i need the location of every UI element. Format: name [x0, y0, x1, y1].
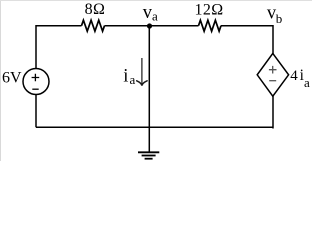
wire bottom [36, 126, 273, 128]
svg-text:i: i [123, 66, 128, 86]
resistor 12Ω zigzag [199, 20, 222, 31]
current arrow i_a head [137, 81, 147, 86]
ground stem [148, 127, 150, 152]
svg-text:a: a [152, 8, 158, 23]
wire top-left segment [36, 25, 82, 27]
wire right vertical upper [272, 25, 274, 54]
svg-text:b: b [276, 11, 283, 26]
svg-text:8Ω: 8Ω [85, 1, 106, 18]
svg-text:6V: 6V [2, 70, 22, 87]
node v_a junction dot [147, 23, 152, 28]
ground bar 3 [145, 158, 153, 160]
voltage source plus sign [32, 74, 40, 82]
wire left vertical lower [35, 94, 37, 127]
voltage source 6V circle [23, 69, 49, 95]
resistor 8Ω zigzag [82, 20, 105, 31]
wire top-right segment [221, 25, 273, 27]
dependent source diamond [257, 53, 288, 96]
svg-text:a: a [130, 72, 136, 87]
wire top-middle segment [105, 25, 199, 27]
svg-text:4: 4 [290, 68, 298, 84]
ground bar 1 [138, 151, 159, 153]
dependent source plus sign [269, 66, 277, 74]
dependent source minus sign [269, 80, 276, 82]
voltage source minus sign [32, 88, 38, 90]
current arrow i_a shaft [141, 58, 143, 84]
svg-text:12Ω: 12Ω [194, 1, 223, 18]
wire left vertical upper [35, 25, 37, 69]
wire right vertical lower [272, 96, 274, 129]
wire middle vertical [148, 26, 150, 127]
ground bar 2 [142, 155, 156, 157]
svg-text:a: a [304, 75, 310, 90]
